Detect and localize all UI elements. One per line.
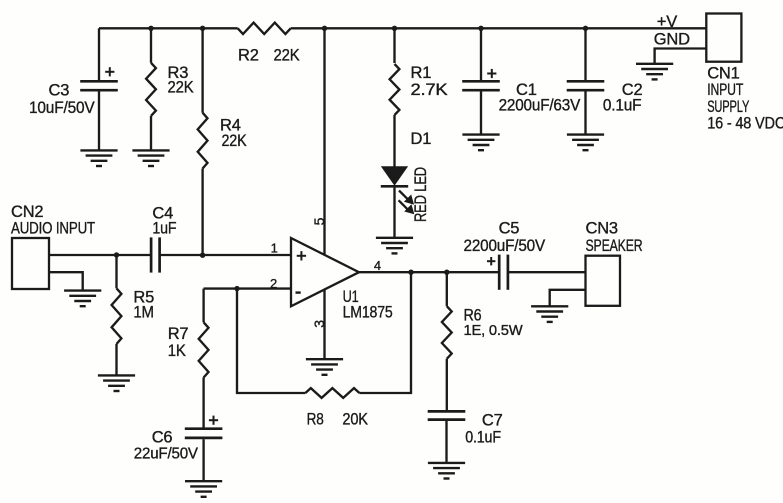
svg-text:SPEAKER: SPEAKER [586,237,643,255]
svg-text:LM1875: LM1875 [343,304,393,322]
wire rail to pin5 [323,28,325,255]
svg-text:+V: +V [657,13,677,31]
svg-text:10uF/50V: 10uF/50V [29,99,95,117]
junction feedback/output [408,270,413,275]
plus mark C3 polarity [105,67,114,76]
svg-text:22K: 22K [274,47,300,65]
svg-text:5: 5 [311,217,327,225]
wire rail to C2 [584,28,586,80]
ground R3 [132,150,169,166]
wire R7 to C6 [202,378,204,429]
svg-text:0.1uF: 0.1uF [603,97,642,115]
connector CN1 box [706,14,741,62]
junction R1/rail [392,26,397,31]
wire pin2 to R8 [237,289,305,393]
ground D1 [376,238,413,254]
capacitor C7 plates [428,411,466,419]
junction C2/rail [583,26,588,31]
svg-text:GND: GND [654,31,690,49]
svg-text:16 - 48 VDC: 16 - 48 VDC [707,114,783,132]
wire C6 to ground [202,439,204,480]
ground C2 [567,135,604,151]
wire CN3 gnd stub [550,290,586,306]
capacitor C6 plates [185,429,223,438]
wire pin2 to R7 [202,289,204,323]
svg-text:22K: 22K [222,132,247,150]
svg-text:INPUT: INPUT [707,81,743,99]
svg-text:C3: C3 [49,82,70,100]
capacitor C3 plates [80,81,118,90]
svg-text:2.7K: 2.7K [411,81,448,99]
ground C7 [428,463,465,479]
minus mark U1 inverting [296,291,301,293]
wire C3 to ground [98,92,100,151]
svg-text:1uF: 1uF [152,220,176,238]
resistor R4 [198,113,208,169]
connector CN2 box [12,238,49,289]
resistor R3 [146,63,156,116]
svg-text:R8: R8 [307,411,324,429]
svg-text:1M: 1M [133,304,154,322]
op-amp U1 LM1875 [291,238,359,306]
wire +V rail left [99,27,238,29]
svg-text:C7: C7 [482,412,503,430]
junction R4/pin1 net [200,253,205,258]
svg-text:R1: R1 [411,64,432,82]
svg-text:4: 4 [374,258,381,273]
connector CN3 box [586,256,621,306]
ground CN1 [636,64,673,80]
svg-text:22K: 22K [168,79,194,97]
ground CN2 [64,291,101,307]
wire +V rail right [291,27,707,29]
LED D1 [382,167,406,185]
capacitor C4 plates [151,237,160,272]
resistor R1 [390,64,400,115]
plus mark C6 polarity [209,416,218,425]
wire pin1 net to R5 [115,255,117,288]
wire output to R6 [446,272,448,306]
wire rail to R4 [201,28,203,112]
plus mark U1 noninverting [297,251,306,260]
wire R3 to ground [150,116,152,150]
LED D1 emission arrows [399,191,413,213]
svg-text:R2: R2 [238,47,259,65]
wire C2 to ground [584,92,586,135]
svg-text:D1: D1 [411,130,432,148]
wire CN2 to C4 [49,254,151,256]
wire rail to C3 [98,28,100,80]
wire C7 to ground [445,421,447,462]
wire pin2 net [204,287,291,289]
junction C1/rail [478,26,483,31]
svg-text:1E, 0.5W: 1E, 0.5W [464,323,524,339]
capacitor C2 plates [567,81,605,90]
wire D1 to ground [393,186,395,237]
junction R6/output [444,270,449,275]
svg-text:22uF/50V: 22uF/50V [134,446,199,463]
resistor R6 [442,306,452,359]
svg-text:R7: R7 [168,325,189,343]
resistor R5 [112,288,122,344]
wire rail to R1 [393,28,395,63]
ground C1 [462,135,499,151]
wire CN2 gnd stub [49,272,83,290]
plus mark C5 polarity [487,257,495,265]
svg-text:1: 1 [271,240,278,255]
resistor R7 [199,322,209,377]
wire R5 to ground [115,344,117,375]
svg-text:2: 2 [270,276,277,291]
wire C1 to ground [480,92,482,135]
svg-text:2200uF/50V: 2200uF/50V [464,237,546,255]
wire C5 to CN3 [508,271,586,273]
svg-text:C6: C6 [152,429,173,447]
plus mark C1 polarity [487,69,496,78]
svg-text:CN1: CN1 [707,65,739,83]
ground R5 [98,375,135,391]
wire rail to C1 [480,28,482,80]
svg-text:RED LED: RED LED [411,167,430,222]
wire output to C5 [359,271,499,273]
svg-text:CN3: CN3 [586,220,618,238]
ground C6 [185,481,222,497]
junction feedback/pin2 [234,286,239,291]
svg-text:3: 3 [311,320,327,328]
wire pin3 to ground [323,289,325,359]
wire R4 to pin1 net [201,169,203,256]
svg-text:0.1uF: 0.1uF [465,429,501,447]
junction pin5/rail [322,26,327,31]
wire R8 to output [359,272,411,393]
capacitor C1 plates [462,81,500,90]
wire rail to R3 [150,28,152,63]
wire R6 to C7 [446,359,448,410]
junction R4/rail [200,26,205,31]
svg-text:AUDIO INPUT: AUDIO INPUT [11,220,95,238]
resistor R2 [238,23,291,34]
svg-text:CN2: CN2 [11,203,43,221]
wire C4 to pin1 [160,254,291,256]
ground U1 pin3 [306,359,343,375]
svg-text:C5: C5 [499,220,520,238]
junction R5/pin1 net [114,252,119,257]
svg-text:20K: 20K [342,411,368,429]
svg-text:SUPPLY: SUPPLY [707,98,749,116]
capacitor C5 plates [499,255,508,290]
svg-text:1K: 1K [168,342,186,360]
wire CN1 GND stub [655,49,707,64]
svg-text:R6: R6 [464,307,482,325]
ground C3 [80,150,117,166]
wire R1 to D1 [393,115,395,167]
junction R3/rail [148,26,153,31]
svg-text:2200uF/63V: 2200uF/63V [499,97,581,115]
resistor R8 [305,388,359,398]
ground CN3 [531,306,568,322]
